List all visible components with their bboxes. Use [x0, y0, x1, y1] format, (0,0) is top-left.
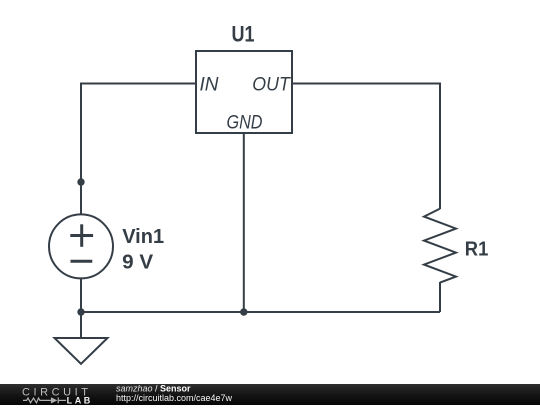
svg-text:samzhao / Sensor: samzhao / Sensor	[116, 383, 191, 393]
resistor R1	[424, 209, 456, 283]
junction node at GND pin	[240, 308, 247, 315]
ground	[55, 338, 108, 364]
junction node at ground	[77, 308, 84, 315]
wire: bottom rail	[81, 311, 440, 313]
svg-text:LAB: LAB	[67, 395, 93, 405]
footer bar	[0, 384, 540, 405]
voltage source Vin1	[49, 214, 113, 278]
wire: Vin1 bottom down to ground node	[80, 278, 82, 338]
svg-text:9 V: 9 V	[122, 251, 154, 273]
wire: U1 GND pin down to bottom rail	[243, 133, 245, 312]
Vin1 minus sign	[71, 260, 93, 263]
svg-text:Vin1: Vin1	[122, 226, 164, 248]
svg-text:IN: IN	[200, 75, 219, 96]
svg-text:http://circuitlab.com/cae4e7w: http://circuitlab.com/cae4e7w	[116, 393, 233, 403]
svg-text:GND: GND	[227, 112, 263, 133]
op-amp U1 box	[196, 51, 292, 133]
logo resistor squiggle	[23, 397, 66, 403]
Vin1 plus sign	[70, 224, 93, 261]
svg-text:U1: U1	[232, 22, 255, 47]
svg-text:OUT: OUT	[252, 75, 291, 96]
junction node on left rail	[77, 178, 84, 185]
logo diode bar	[57, 397, 59, 403]
wire: R1 bottom to bottom rail	[439, 282, 441, 312]
logo diode triangle	[51, 397, 58, 403]
wire: U1 IN pin left then down to Vin1 top	[81, 84, 196, 216]
wire: U1 OUT pin right then down to R1 top	[292, 84, 440, 210]
svg-text:R1: R1	[465, 239, 489, 261]
